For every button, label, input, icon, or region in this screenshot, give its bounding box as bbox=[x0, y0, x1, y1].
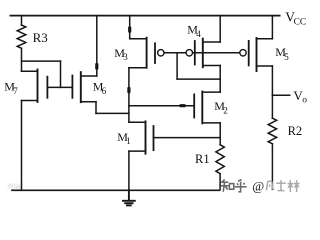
svg-text:4: 4 bbox=[196, 29, 201, 39]
wire M2 source lead bbox=[202, 122, 220, 124]
wire M4 source lead bbox=[203, 41, 220, 43]
wire M6 source to node A bbox=[96, 112, 129, 114]
svg-text:6: 6 bbox=[102, 86, 107, 96]
svg-text:2: 2 bbox=[223, 106, 228, 116]
M1 gate bar bbox=[153, 126, 155, 150]
wire M7 source lead bbox=[22, 100, 38, 102]
resistor R1 bbox=[216, 145, 224, 174]
wire node A to M2 gate bbox=[129, 105, 194, 107]
wire M5 drain down to R2 bbox=[271, 66, 273, 118]
svg-text:@: @ bbox=[252, 179, 264, 194]
wire M5 source lead bbox=[257, 38, 273, 40]
svg-text:R3: R3 bbox=[33, 30, 48, 45]
transistor M4 bbox=[195, 39, 220, 68]
svg-text:CC: CC bbox=[294, 18, 307, 28]
node VCC label bbox=[285, 9, 306, 27]
transistor M1 bbox=[129, 121, 154, 153]
label M5 bbox=[275, 45, 289, 62]
svg-text:3: 3 bbox=[123, 52, 128, 62]
junction node A bbox=[127, 88, 130, 92]
glyph 乎 bbox=[238, 180, 242, 182]
wire M2 drain lead bbox=[202, 91, 220, 93]
label M3 bbox=[114, 46, 128, 62]
wire M4 source up to VCC bbox=[219, 16, 221, 42]
label M1 bbox=[117, 130, 131, 146]
M7 channel bar bbox=[37, 70, 39, 102]
wire M5 source up to VCC bbox=[271, 16, 273, 39]
M4 channel bar bbox=[202, 39, 204, 68]
node Vo label bbox=[293, 88, 307, 105]
wire M6 drain lead bbox=[81, 75, 97, 77]
wire M2 source down to R1 bbox=[219, 123, 221, 145]
wire gate node drop bbox=[176, 53, 178, 79]
M6 gate bar bbox=[71, 76, 73, 98]
wire M6 source lead bbox=[81, 101, 96, 103]
wire bias node drop to gate wire bbox=[60, 61, 62, 87]
wire output stub Vo bbox=[272, 94, 289, 96]
junction M6 drain wire bbox=[95, 65, 98, 69]
wire M1 gate to R1 top node bbox=[154, 137, 221, 139]
resistor R3 bbox=[17, 25, 26, 48]
junction dot on M2 gate wire bbox=[181, 104, 185, 107]
svg-text:R1: R1 bbox=[195, 152, 210, 166]
wire M7 drain lead bbox=[22, 70, 38, 72]
svg-text:5: 5 bbox=[284, 52, 289, 62]
wire VCC drop to M3 bbox=[129, 16, 131, 39]
wire M4 drain down to M2 drain bbox=[219, 66, 221, 93]
transistor M2 bbox=[194, 92, 220, 124]
wire M7 gate to M6 gate bbox=[47, 86, 72, 88]
watermark (vector glyphs: 知乎 @凡士林) bbox=[221, 180, 247, 192]
wire R1 bottom to ground rail bbox=[219, 174, 221, 190]
wire M6 source down bbox=[95, 102, 97, 114]
wire rail to R3 bbox=[21, 16, 23, 26]
M4 gate bar bbox=[194, 41, 196, 65]
transistor M3 bbox=[129, 38, 155, 68]
M2 gate bar bbox=[193, 94, 195, 117]
label M7 bbox=[4, 79, 18, 96]
glyph 士 bbox=[276, 182, 286, 184]
wire M6 drain up to VCC bbox=[96, 16, 98, 76]
svg-text:1: 1 bbox=[126, 136, 131, 146]
wire M1 drain lead bbox=[129, 121, 146, 123]
M3 channel bar bbox=[146, 38, 148, 68]
ground bbox=[123, 190, 135, 205]
glyph 凡 bbox=[266, 181, 267, 190]
wire M5 drain lead bbox=[257, 65, 273, 67]
M4 gate bubble bbox=[186, 50, 192, 56]
resistor R2 bbox=[268, 118, 276, 144]
svg-text:R2: R2 bbox=[288, 124, 303, 138]
glyph 林 bbox=[288, 183, 293, 185]
wire M1 source down to ground rail bbox=[128, 151, 130, 190]
glyph 知 bbox=[222, 180, 224, 182]
M5 channel bar bbox=[256, 38, 258, 71]
M3 gate bar bbox=[154, 43, 156, 63]
faint smudge bottom-left bbox=[8, 184, 21, 190]
label M6 bbox=[93, 79, 107, 96]
wire gate node to M4 drain column bbox=[177, 78, 220, 80]
wire ground rail bbox=[12, 189, 219, 191]
wire node A vertical M3 drain to M1 drain bbox=[128, 68, 130, 123]
label M2 bbox=[214, 99, 228, 116]
M5 gate bubble bbox=[240, 50, 246, 56]
wire R3 bottom to M7 drain bbox=[21, 48, 23, 71]
M6 channel bar bbox=[80, 72, 82, 102]
svg-text:o: o bbox=[302, 95, 307, 105]
junction M3 rail drop bbox=[128, 28, 131, 32]
wire R2 bottom bbox=[271, 144, 273, 190]
M1 channel bar bbox=[145, 121, 147, 153]
M2 channel bar bbox=[201, 92, 203, 124]
wire bias node horizontal bbox=[22, 60, 61, 62]
transistor M7 bbox=[22, 70, 48, 102]
wire M3 source lead bbox=[130, 38, 147, 40]
M7 gate bar bbox=[46, 77, 48, 98]
M3 gate bubble bbox=[158, 50, 164, 56]
wire PMOS common gate bbox=[164, 52, 240, 54]
wire M3 drain lead bbox=[129, 67, 147, 69]
wire M7 source down to ground rail bbox=[21, 101, 23, 191]
M5 gate bar bbox=[248, 41, 250, 66]
wire M4 drain lead bbox=[203, 65, 220, 67]
transistor M6 bbox=[72, 72, 96, 102]
transistor M5 bbox=[249, 38, 273, 71]
wire M1 source lead bbox=[129, 150, 146, 152]
label M4 bbox=[187, 23, 201, 40]
svg-text:7: 7 bbox=[13, 86, 18, 96]
wire VCC top rail bbox=[10, 15, 279, 17]
